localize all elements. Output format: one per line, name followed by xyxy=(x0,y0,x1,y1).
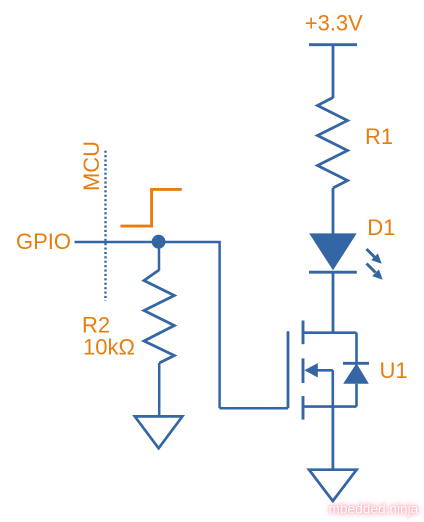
wire R2 to ground xyxy=(158,363,161,416)
MOSFET U1 channel segment source xyxy=(302,396,305,420)
svg-text:mbedded.ninja: mbedded.ninja xyxy=(329,501,419,516)
wire GPIO junction to gate xyxy=(159,242,220,408)
MOSFET U1 bottom rail (source) xyxy=(303,405,357,408)
node junction xyxy=(152,235,166,249)
wire gate lead xyxy=(220,407,288,410)
MOSFET U1 channel segment drain xyxy=(302,321,305,345)
body diode cathode lead xyxy=(355,333,358,364)
wire D1 to U1 drain xyxy=(332,272,335,333)
svg-text:GPIO: GPIO xyxy=(16,229,71,254)
MCU boundary dotted line xyxy=(104,151,106,301)
svg-text:U1: U1 xyxy=(380,358,408,383)
LED D1 cathode bar xyxy=(309,271,357,274)
wire junction to R2 xyxy=(158,242,161,271)
wire R1 to D1 xyxy=(332,188,335,234)
body diode triangle xyxy=(343,363,369,383)
svg-text:10kΩ: 10kΩ xyxy=(83,335,135,360)
step signal symbol xyxy=(120,189,181,226)
wire body to source rail xyxy=(331,370,334,406)
wire power rail to R1 xyxy=(332,45,335,98)
body diode cathode bar xyxy=(343,362,369,365)
svg-text:R1: R1 xyxy=(365,124,393,149)
MOSFET U1 body arrow xyxy=(304,363,333,377)
power rail bar xyxy=(309,43,357,46)
svg-text:+3.3V: +3.3V xyxy=(305,11,363,36)
LED light arrow 1 xyxy=(367,249,382,264)
MOSFET U1 channel segment body xyxy=(302,358,305,383)
svg-text:D1: D1 xyxy=(367,215,395,240)
LED light arrow 2 xyxy=(367,264,383,280)
resistor R2 xyxy=(144,270,174,363)
resistor R1 xyxy=(318,98,348,189)
ground (MOSFET source) xyxy=(309,470,357,501)
svg-text:MCU: MCU xyxy=(79,141,104,191)
wire source to ground xyxy=(331,407,334,470)
MOSFET U1 top rail (drain) xyxy=(303,331,357,334)
body diode anode lead xyxy=(355,384,358,407)
MOSFET U1 gate plate xyxy=(287,331,290,408)
ground (R2) xyxy=(135,416,183,448)
LED D1 triangle xyxy=(309,233,357,270)
wire GPIO xyxy=(75,241,159,244)
